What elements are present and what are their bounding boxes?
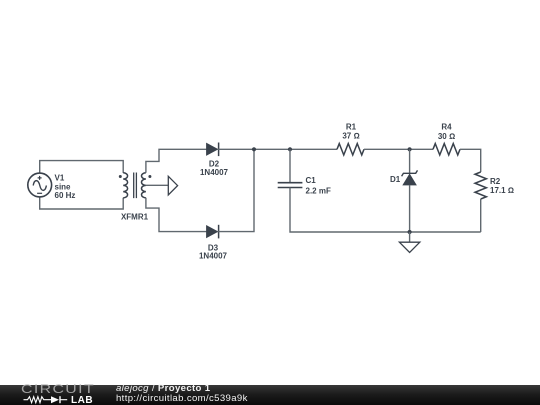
- wire center tap: [146, 184, 168, 186]
- voltage source V1: [28, 173, 52, 197]
- wire C1 top lead: [289, 149, 291, 182]
- primary phase dot: [119, 175, 122, 178]
- svg-text:60 Hz: 60 Hz: [55, 191, 76, 200]
- label V1 value: [55, 173, 76, 200]
- ground: [399, 242, 419, 252]
- label D2: [200, 159, 229, 176]
- svg-text:R1: R1: [346, 122, 357, 131]
- svg-text:30 Ω: 30 Ω: [438, 132, 455, 141]
- CircuitLab logo CIRCUIT: [21, 384, 95, 396]
- wire R4 to R2 corner: [460, 149, 481, 172]
- svg-text:37 Ω: 37 Ω: [342, 132, 359, 141]
- credit text: [116, 384, 248, 403]
- wire secondary top lead: [146, 149, 207, 173]
- junction node C1/top rail: [288, 147, 292, 151]
- resistor R1: [337, 144, 364, 155]
- junction node D3/top rail: [252, 147, 256, 151]
- svg-text:17.1 Ω: 17.1 Ω: [490, 186, 514, 195]
- svg-text:V1: V1: [55, 173, 65, 182]
- secondary phase dot: [148, 175, 151, 178]
- diode D3: [207, 225, 219, 239]
- transformer XFMR1 secondary winding: [141, 173, 145, 198]
- label R1 value: [342, 122, 359, 140]
- svg-text:2.2 mF: 2.2 mF: [306, 187, 331, 196]
- footer bar: [0, 385, 540, 405]
- wire R2 bottom lead: [480, 199, 482, 232]
- wire C1 bottom lead: [290, 188, 481, 232]
- label R4 value: [438, 123, 455, 141]
- wire top rail D2 to R1: [217, 148, 337, 150]
- wire D1 bottom lead: [409, 185, 411, 232]
- junction node D1/top rail: [408, 147, 412, 151]
- wire R1 to R4: [364, 148, 433, 150]
- transformer core: [134, 173, 137, 199]
- wire D1 top lead: [409, 149, 411, 173]
- wire ground stub: [409, 232, 411, 242]
- diode D2: [207, 143, 219, 157]
- svg-text:1N4007: 1N4007: [200, 168, 229, 177]
- resistor R4: [433, 144, 460, 155]
- svg-text:1N4007: 1N4007: [199, 252, 228, 261]
- junction node ground/bottom rail: [408, 230, 412, 234]
- transformer XFMR1 primary winding: [123, 173, 127, 198]
- svg-text:C1: C1: [306, 176, 317, 185]
- wire secondary bottom lead: [146, 198, 207, 232]
- CircuitLab logo squiggle: [22, 395, 70, 405]
- label D3: [199, 243, 228, 260]
- resistor R2: [475, 172, 486, 199]
- ground center tap (rotated): [168, 176, 177, 195]
- capacitor C1: [278, 183, 303, 188]
- svg-text:D1: D1: [390, 175, 401, 184]
- label C1 value: [306, 176, 331, 196]
- svg-text:R4: R4: [441, 123, 452, 132]
- CircuitLab logo LAB: [71, 395, 93, 405]
- svg-text:XFMR1: XFMR1: [121, 213, 149, 222]
- wire V1 loop bottom: [40, 197, 124, 209]
- label R2 value: [490, 177, 514, 195]
- svg-text:R2: R2: [490, 177, 501, 186]
- wire V1 loop top: [40, 161, 124, 173]
- wire D3 cathode up to top rail: [217, 149, 254, 231]
- zener diode D1: [402, 170, 418, 185]
